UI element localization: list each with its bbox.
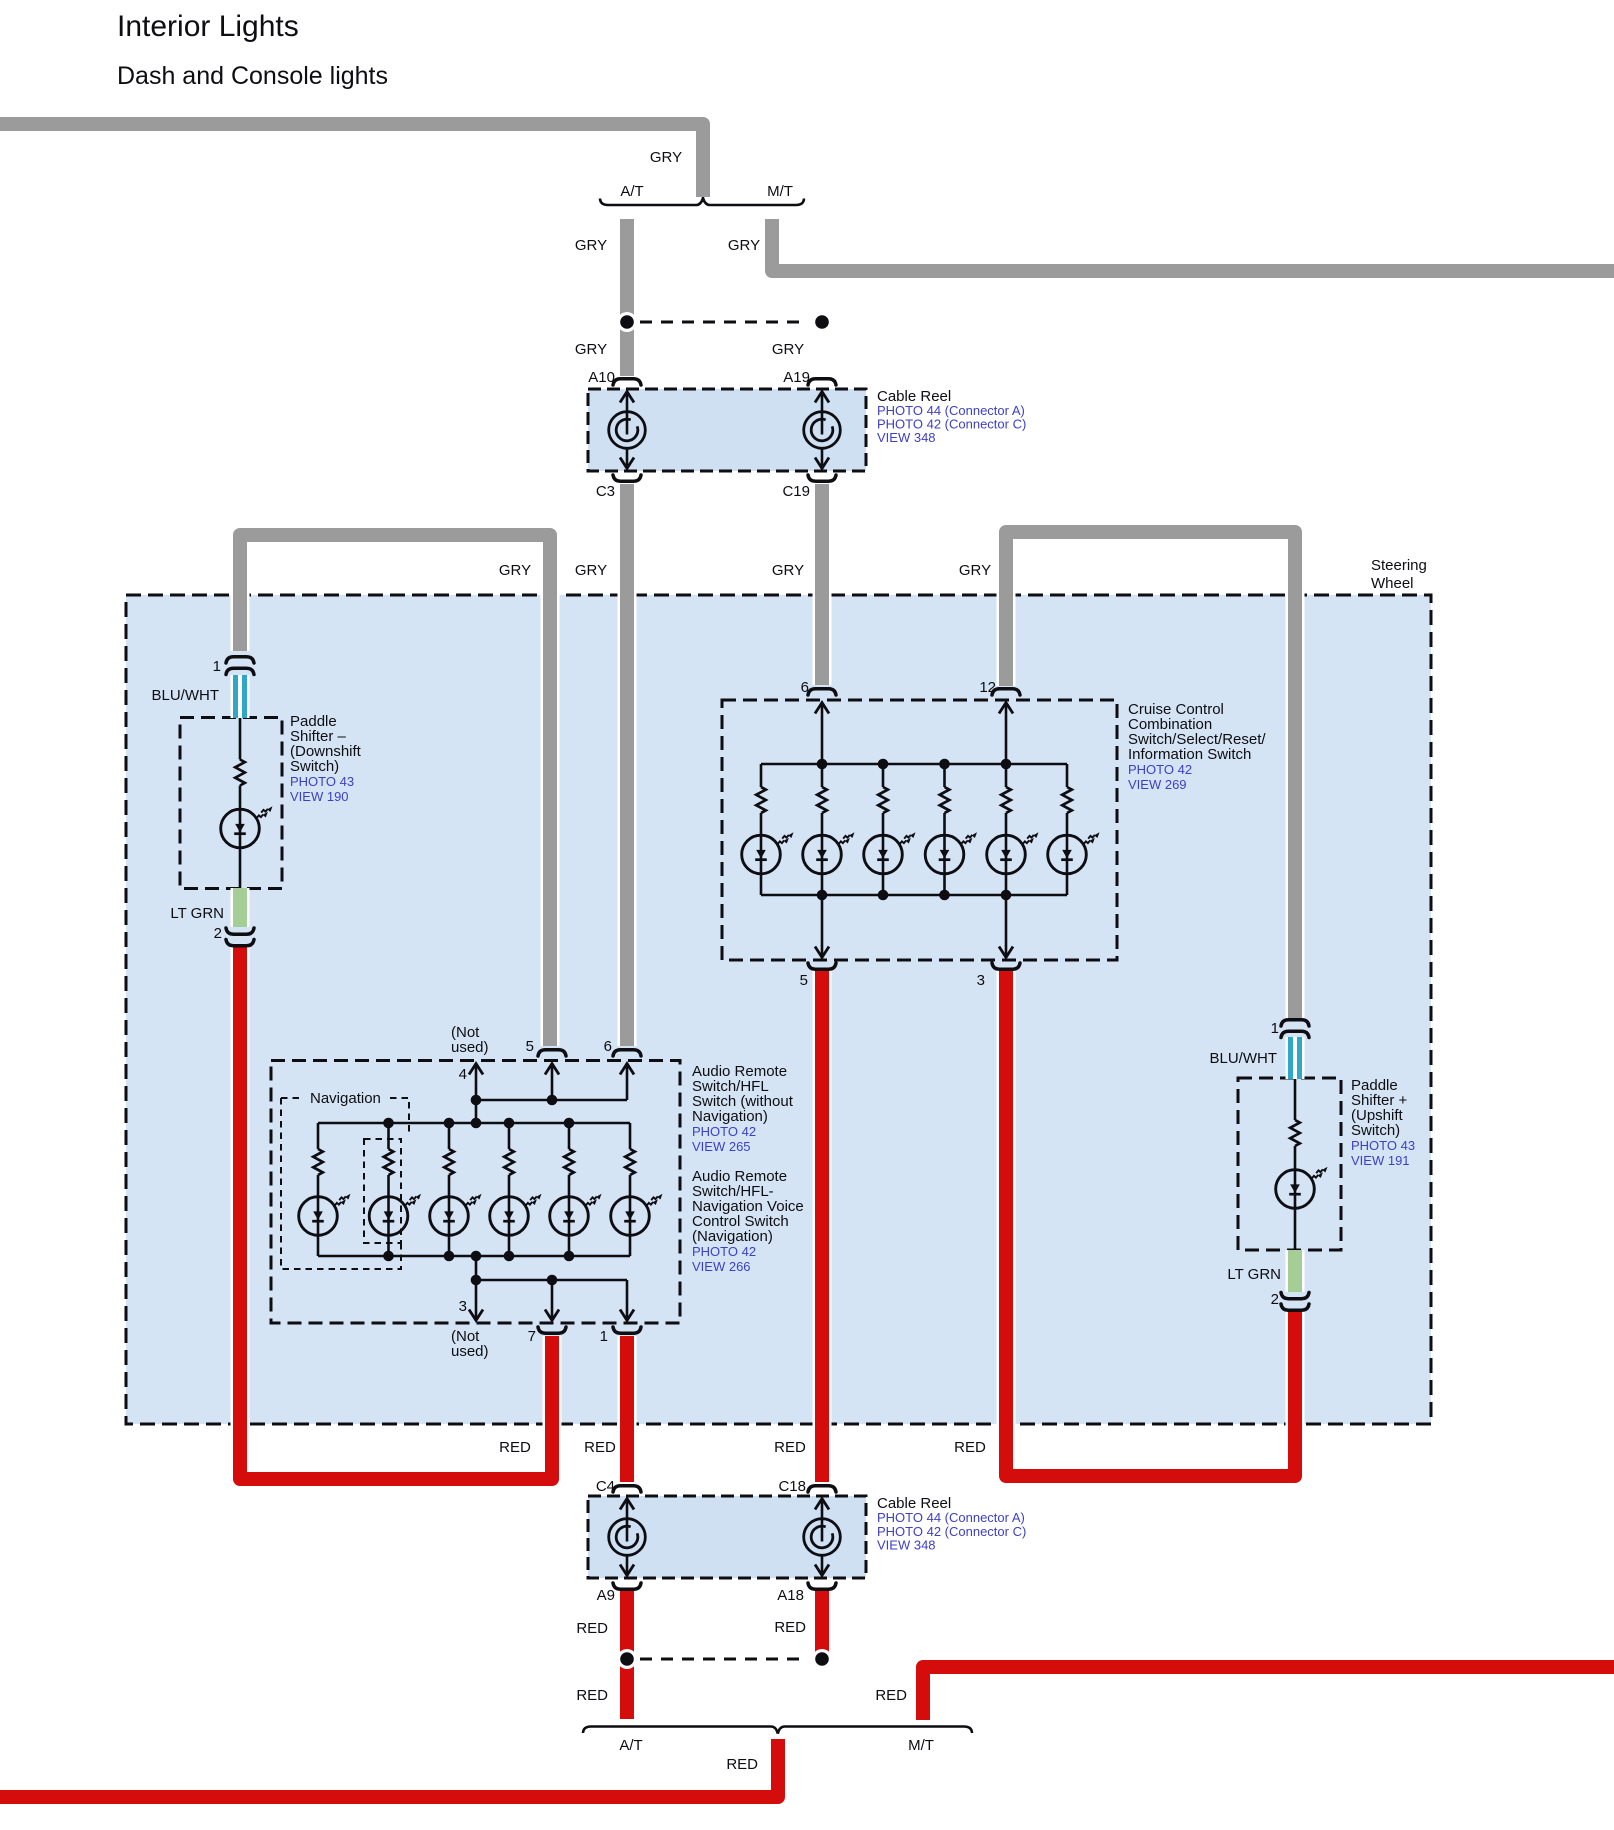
svg-text:PHOTO 42: PHOTO 42 bbox=[692, 1124, 756, 1139]
splice link (bottom, RED) bbox=[640, 1658, 808, 1661]
svg-text:GRY: GRY bbox=[772, 341, 804, 358]
svg-text:3: 3 bbox=[977, 972, 985, 989]
svg-text:6: 6 bbox=[801, 679, 809, 696]
connector paddle- pin 2 bbox=[226, 928, 254, 934]
audio illumination branch 5 (resistor + LED) bbox=[550, 1123, 602, 1256]
wire GRY M/T branch bbox=[772, 219, 1614, 271]
cable reel connector box (bottom) bbox=[588, 1496, 866, 1578]
wire GRY C3 to audio pin 6 bbox=[618, 484, 637, 1046]
navigation inner box bbox=[364, 1139, 401, 1243]
wire RED cruise pin5 to C18 bbox=[813, 971, 832, 1482]
svg-text:GRY: GRY bbox=[772, 562, 804, 579]
cruise illumination branch 1 (resistor + LED) bbox=[742, 764, 794, 895]
svg-text:used): used) bbox=[451, 1039, 489, 1056]
cruise illumination branch 5 (resistor + LED) bbox=[987, 764, 1039, 895]
svg-text:RED: RED bbox=[499, 1439, 531, 1456]
svg-text:2: 2 bbox=[214, 925, 222, 942]
cruise bus junctions bbox=[817, 759, 828, 770]
svg-text:GRY: GRY bbox=[650, 149, 682, 166]
audio illumination branch 3 (resistor + LED) bbox=[430, 1123, 482, 1256]
connector audio pin 5 bbox=[538, 1050, 566, 1056]
svg-text:used): used) bbox=[451, 1343, 489, 1360]
svg-text:RED: RED bbox=[774, 1439, 806, 1456]
svg-text:C18: C18 bbox=[778, 1478, 806, 1495]
splice junction RED A9 bbox=[617, 1649, 637, 1669]
svg-text:PHOTO 42: PHOTO 42 bbox=[692, 1244, 756, 1259]
steering wheel enclosure bbox=[126, 595, 1431, 1424]
svg-text:A9: A9 bbox=[597, 1587, 615, 1604]
paddle shifter - resistor + LED bbox=[221, 718, 273, 889]
svg-text:PHOTO 43: PHOTO 43 bbox=[1351, 1138, 1415, 1153]
svg-text:1: 1 bbox=[213, 658, 221, 675]
splice junction RED A18 bbox=[812, 1649, 832, 1669]
wire RED audio pin1 to C4 bbox=[618, 1336, 637, 1482]
svg-text:GRY: GRY bbox=[499, 562, 531, 579]
svg-text:BLU/WHT: BLU/WHT bbox=[152, 687, 220, 704]
svg-text:Switch): Switch) bbox=[290, 758, 339, 775]
connector audio pin 7 bbox=[538, 1327, 566, 1333]
svg-text:C19: C19 bbox=[782, 483, 810, 500]
svg-text:A18: A18 bbox=[777, 1587, 804, 1604]
svg-text:RED: RED bbox=[726, 1756, 758, 1773]
svg-text:5: 5 bbox=[526, 1038, 534, 1055]
wire BLU/WHT paddle- pin1 bbox=[231, 675, 250, 718]
cable reel coil A19/C19 bbox=[821, 392, 824, 435]
svg-text:1: 1 bbox=[600, 1328, 608, 1345]
svg-text:LT GRN: LT GRN bbox=[1227, 1266, 1281, 1283]
connector paddle- pin 1 bbox=[226, 657, 254, 663]
connector cruise pin 3 bbox=[992, 963, 1020, 969]
svg-text:RED: RED bbox=[875, 1687, 907, 1704]
cruise illumination branch 4 (resistor + LED) bbox=[925, 764, 977, 895]
svg-text:A10: A10 bbox=[588, 369, 615, 386]
svg-text:A/T: A/T bbox=[619, 1737, 642, 1754]
connector C3 bbox=[613, 475, 641, 481]
svg-text:VIEW 348: VIEW 348 bbox=[877, 1538, 936, 1553]
svg-text:Interior Lights: Interior Lights bbox=[117, 10, 299, 43]
connector C18 bbox=[808, 1486, 836, 1492]
wire RED combined feed (bottom) bbox=[0, 1739, 778, 1797]
svg-text:Information Switch: Information Switch bbox=[1128, 746, 1251, 763]
navigation variant outline bbox=[281, 1097, 303, 1099]
svg-text:VIEW 265: VIEW 265 bbox=[692, 1139, 751, 1154]
svg-text:PHOTO 43: PHOTO 43 bbox=[290, 774, 354, 789]
cruise switch bus wiring bbox=[761, 763, 1067, 766]
svg-text:GRY: GRY bbox=[575, 562, 607, 579]
svg-text:RED: RED bbox=[576, 1687, 608, 1704]
wire GRY cruise pin12 / paddle+ pin1 link bbox=[1006, 532, 1295, 1018]
connector paddle+ pin 2 bbox=[1281, 1293, 1309, 1299]
cable reel coil A10/C3 bbox=[626, 392, 629, 435]
connector A10 bbox=[613, 379, 641, 385]
audio illumination branch 2 (resistor + LED) bbox=[369, 1123, 421, 1256]
svg-text:GRY: GRY bbox=[575, 237, 607, 254]
splice junction GRY A/T bbox=[617, 312, 637, 332]
svg-text:12: 12 bbox=[979, 679, 996, 696]
connector cruise pin 12 bbox=[992, 689, 1020, 695]
svg-text:Dash and Console lights: Dash and Console lights bbox=[117, 62, 388, 90]
svg-text:GRY: GRY bbox=[575, 341, 607, 358]
wire LT GRN paddle+ pin2 bbox=[1286, 1250, 1305, 1292]
svg-text:C3: C3 bbox=[596, 483, 615, 500]
svg-text:GRY: GRY bbox=[728, 237, 760, 254]
svg-text:4: 4 bbox=[459, 1066, 467, 1083]
wire RED paddle- pin2 to audio pin7 bbox=[240, 947, 552, 1479]
connector A9 bbox=[613, 1583, 641, 1589]
wire LT GRN paddle- pin2 bbox=[231, 888, 250, 927]
paddle shifter - (downshift switch) box bbox=[180, 718, 282, 889]
svg-text:Switch): Switch) bbox=[1351, 1122, 1400, 1139]
connector cruise pin 5 bbox=[808, 963, 836, 969]
cable reel coil C4/A9 bbox=[626, 1499, 629, 1542]
svg-text:M/T: M/T bbox=[767, 183, 793, 200]
svg-text:1: 1 bbox=[1271, 1020, 1279, 1037]
wire RED A18 to splice bbox=[813, 1590, 832, 1659]
svg-text:PHOTO 44 (Connector A): PHOTO 44 (Connector A) bbox=[877, 1510, 1025, 1525]
connector A19 bbox=[808, 379, 836, 385]
cruise illumination branch 6 (resistor + LED) bbox=[1048, 764, 1100, 895]
svg-text:Navigation: Navigation bbox=[310, 1090, 381, 1107]
svg-text:A19: A19 bbox=[783, 369, 810, 386]
cable reel coil C18/A18 bbox=[821, 1499, 824, 1542]
audio bus junctions bbox=[383, 1118, 394, 1129]
wire RED M/T return bbox=[923, 1667, 1614, 1720]
audio illumination branch 6 (resistor + LED) bbox=[611, 1123, 663, 1256]
svg-text:Wheel: Wheel bbox=[1371, 575, 1414, 592]
svg-text:A/T: A/T bbox=[620, 183, 643, 200]
svg-text:RED: RED bbox=[954, 1439, 986, 1456]
cruise control combination switch box bbox=[722, 700, 1117, 960]
svg-text:PHOTO 42: PHOTO 42 bbox=[1128, 762, 1192, 777]
wire GRY main feed (top) bbox=[0, 124, 703, 197]
audio illumination branch 1 (resistor + LED) bbox=[299, 1123, 351, 1256]
splice junction GRY M/T bbox=[812, 312, 832, 332]
svg-text:6: 6 bbox=[604, 1038, 612, 1055]
svg-text:GRY: GRY bbox=[959, 562, 991, 579]
svg-text:VIEW 266: VIEW 266 bbox=[692, 1259, 751, 1274]
connector audio pin 6 bbox=[613, 1050, 641, 1056]
wire RED cruise pin3 to paddle+ pin2 bbox=[1006, 971, 1295, 1476]
svg-text:VIEW 269: VIEW 269 bbox=[1128, 777, 1187, 792]
wire GRY A/T branch bbox=[618, 219, 637, 376]
svg-text:LT GRN: LT GRN bbox=[170, 905, 224, 922]
svg-text:C4: C4 bbox=[596, 1478, 615, 1495]
paddle shifter + resistor + LED bbox=[1276, 1078, 1328, 1249]
cable reel connector box (top) bbox=[588, 389, 866, 471]
audio illumination branch 4 (resistor + LED) bbox=[490, 1123, 542, 1256]
svg-text:7: 7 bbox=[528, 1328, 536, 1345]
cruise illumination branch 3 (resistor + LED) bbox=[864, 764, 916, 895]
splice link (top, GRY) bbox=[640, 321, 808, 324]
svg-text:Navigation): Navigation) bbox=[692, 1108, 768, 1125]
wire RED A9 down to A/T brace bbox=[618, 1590, 637, 1719]
svg-text:RED: RED bbox=[774, 1619, 806, 1636]
svg-text:M/T: M/T bbox=[908, 1737, 934, 1754]
connector C4 bbox=[613, 1486, 641, 1492]
connector C19 bbox=[808, 475, 836, 481]
paddle shifter + (upshift switch) box bbox=[1238, 1078, 1341, 1250]
svg-text:Steering: Steering bbox=[1371, 557, 1427, 574]
audio switch bus wiring bbox=[318, 1122, 630, 1125]
svg-text:(Navigation): (Navigation) bbox=[692, 1228, 773, 1245]
svg-text:VIEW 191: VIEW 191 bbox=[1351, 1153, 1410, 1168]
wire GRY C19 to cruise pin 6 bbox=[813, 484, 832, 685]
svg-text:BLU/WHT: BLU/WHT bbox=[1210, 1050, 1278, 1067]
connector paddle+ pin 1 bbox=[1281, 1020, 1309, 1026]
svg-text:RED: RED bbox=[584, 1439, 616, 1456]
svg-text:VIEW 190: VIEW 190 bbox=[290, 789, 349, 804]
audio remote switch box bbox=[271, 1061, 680, 1324]
connector audio pin 1 bbox=[613, 1327, 641, 1333]
connector cruise pin 6 bbox=[808, 689, 836, 695]
svg-text:VIEW 348: VIEW 348 bbox=[877, 430, 936, 445]
A/T / M/T brace (top) bbox=[600, 198, 804, 205]
svg-text:2: 2 bbox=[1271, 1291, 1279, 1308]
cruise illumination branch 2 (resistor + LED) bbox=[803, 764, 855, 895]
connector A18 bbox=[808, 1583, 836, 1589]
svg-text:3: 3 bbox=[459, 1298, 467, 1315]
wire BLU/WHT paddle+ pin1 bbox=[1286, 1037, 1305, 1079]
svg-text:5: 5 bbox=[800, 972, 808, 989]
A/T / M/T brace (bottom) bbox=[583, 1727, 972, 1734]
wire GRY paddle- pin1 / audio pin5 link bbox=[240, 535, 550, 1046]
svg-text:RED: RED bbox=[576, 1620, 608, 1637]
